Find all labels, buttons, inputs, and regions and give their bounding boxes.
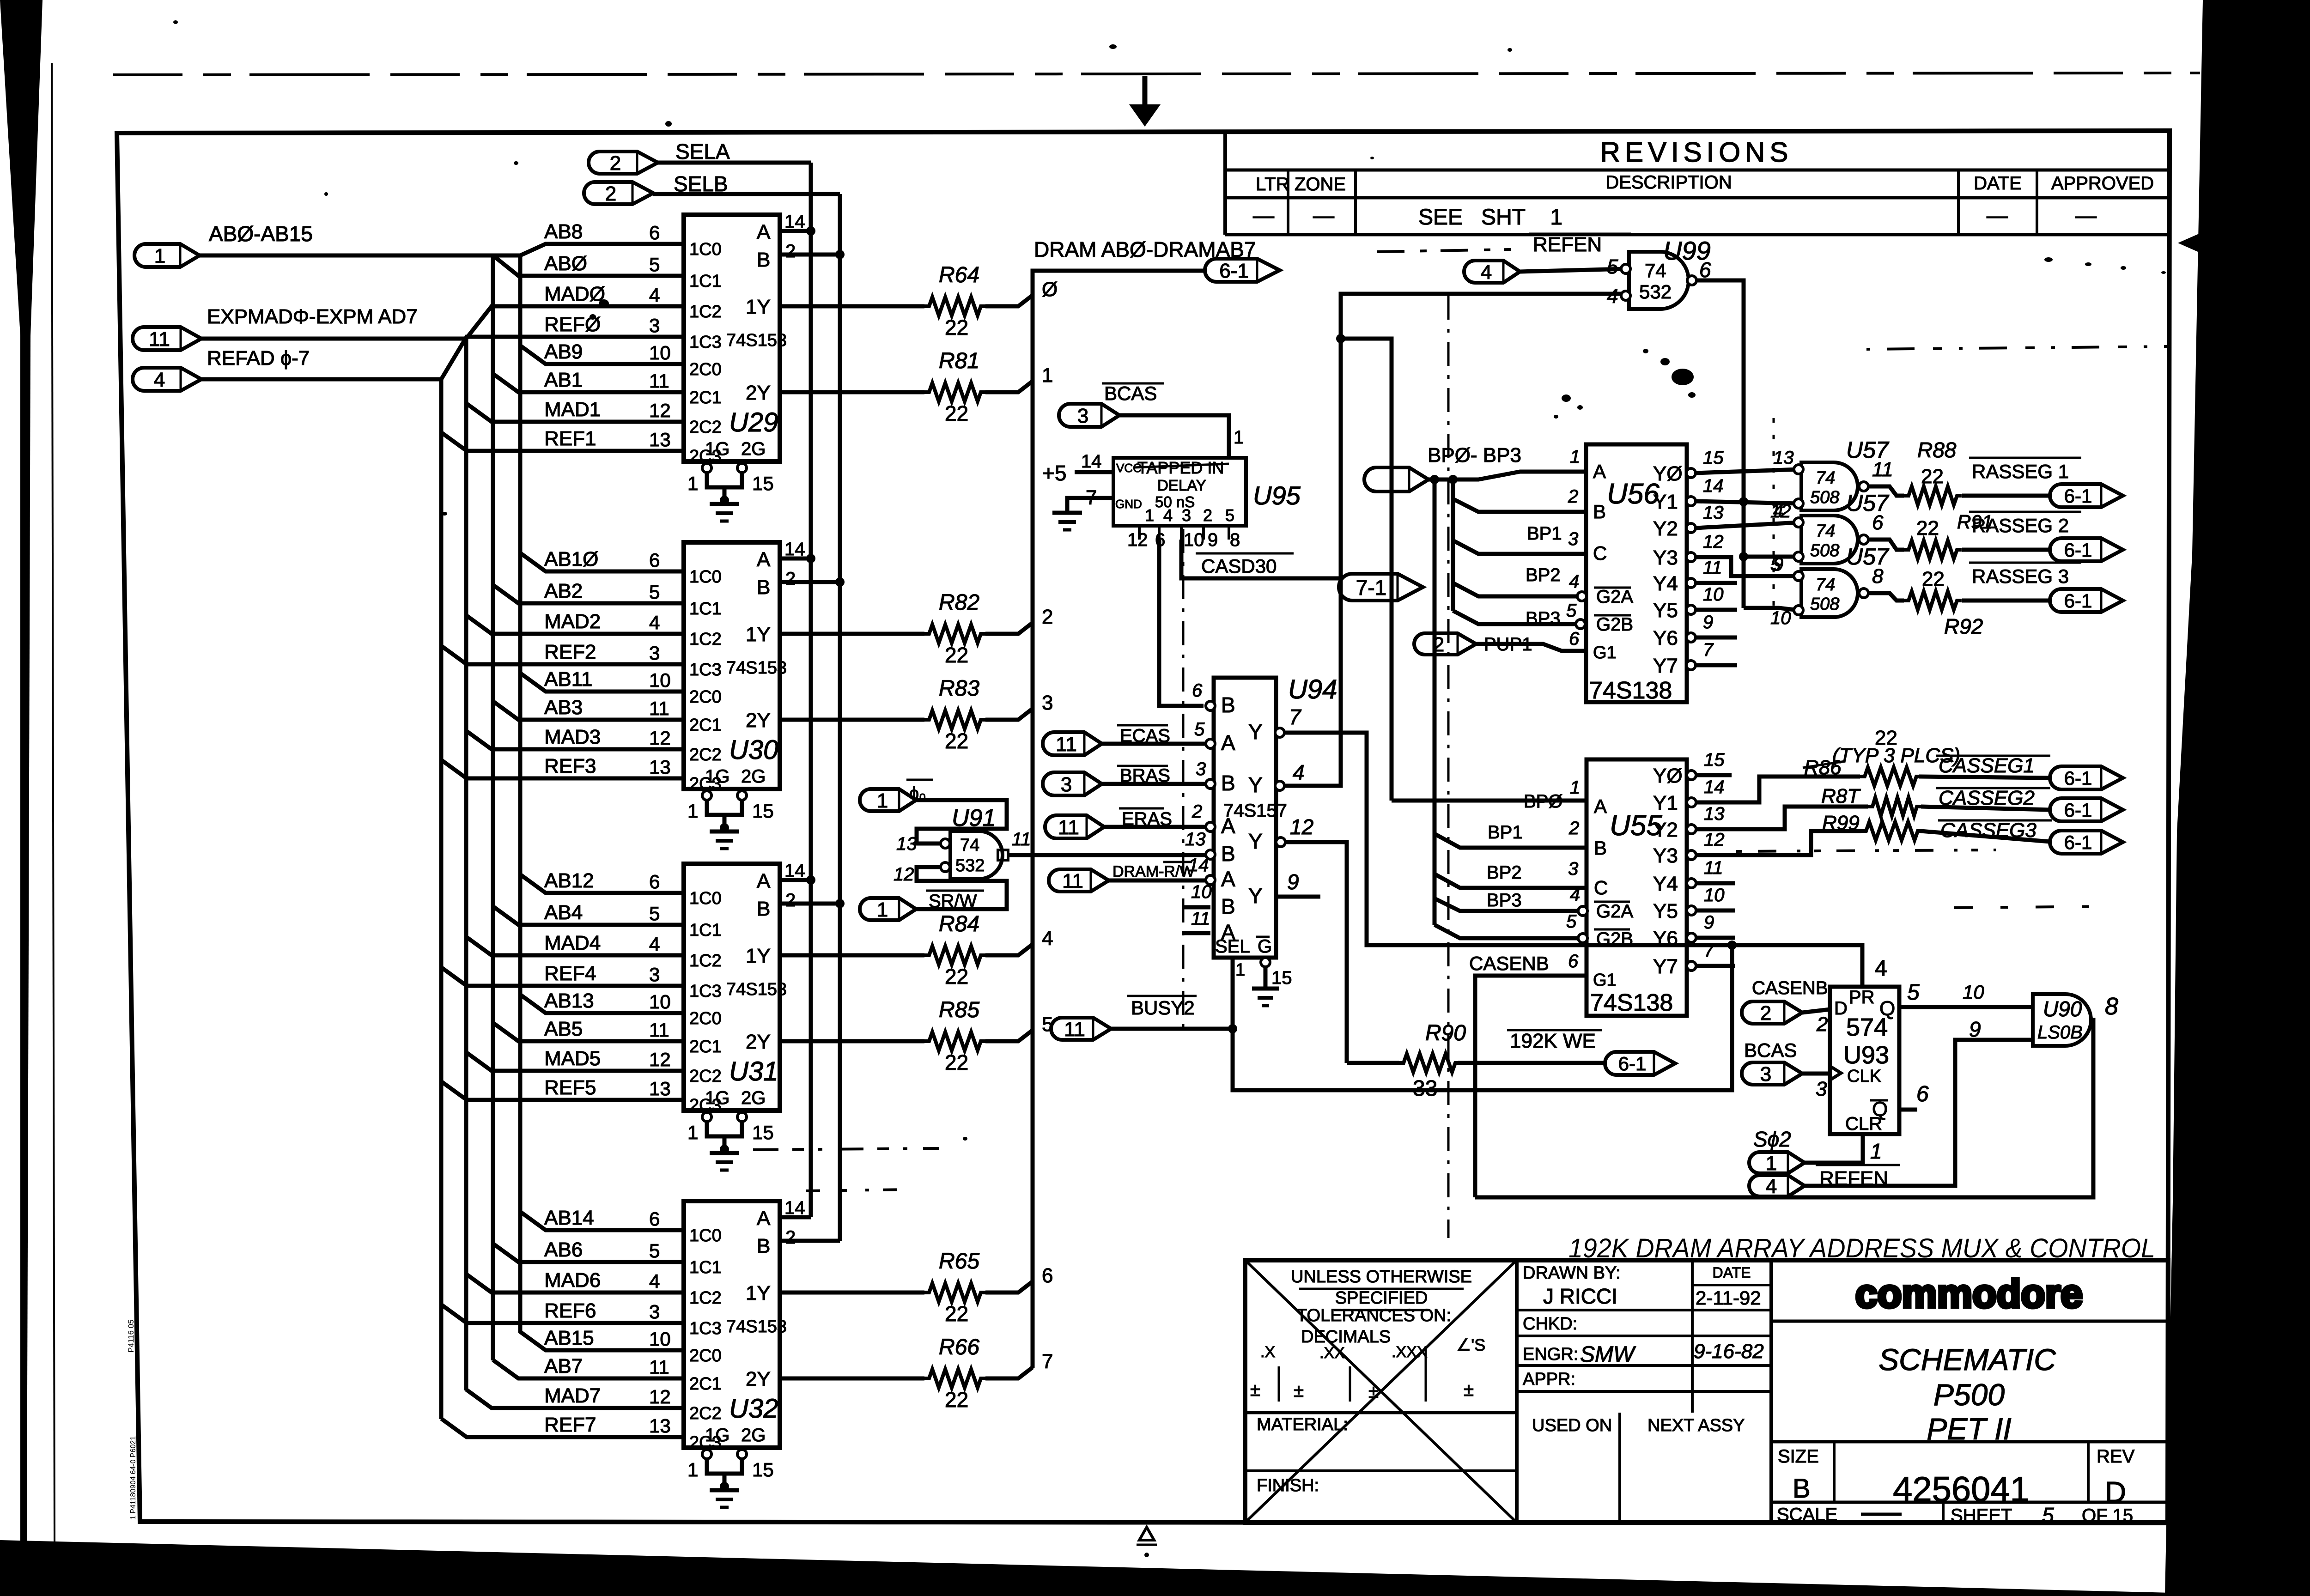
svg-text:7-1: 7-1: [1356, 576, 1386, 600]
svg-text:U95: U95: [1253, 481, 1301, 510]
svg-text:REFAD ɸ-7: REFAD ɸ-7: [207, 347, 310, 370]
wire U94 SEL pin1 / down to PR route: [1233, 945, 1732, 1090]
svg-text:BP2: BP2: [1487, 862, 1522, 883]
svg-text:A: A: [1593, 461, 1606, 482]
svg-text:U94: U94: [1288, 674, 1337, 704]
ground U94: [1252, 989, 1279, 1006]
wire U93 Q to U90 in1: [1899, 980, 2033, 1007]
wire U31 input MAD5 pin 12: [466, 1047, 684, 1071]
svg-text:G2A: G2A: [1596, 901, 1633, 922]
wire U55 Y2 to R87: [1696, 807, 1868, 829]
svg-text:—: —: [1253, 203, 1274, 227]
svg-text:12: 12: [649, 1049, 671, 1070]
svg-text:11: 11: [1058, 816, 1079, 839]
wire U31 input REF4 pin 3: [441, 962, 684, 986]
scan artifacts: [173, 20, 2166, 1141]
svg-text:2C2: 2C2: [689, 418, 722, 437]
svg-text:2C1: 2C1: [689, 1037, 722, 1056]
wire U32 input AB6 pin 5: [493, 1238, 684, 1262]
svg-text:3: 3: [649, 642, 660, 664]
wire SELA trunk: [809, 163, 813, 1217]
resistor R64 22 ohm: [780, 263, 1058, 340]
svg-text:74S138: 74S138: [1590, 989, 1673, 1016]
wire AB bus: [200, 254, 520, 258]
svg-text:6-1: 6-1: [1618, 1053, 1647, 1074]
wire U55 Y1 to R86: [1696, 777, 1860, 802]
wire U29 input AB8 pin 6: [520, 220, 684, 255]
svg-text:14: 14: [784, 539, 805, 559]
svg-text:6: 6: [1192, 680, 1203, 701]
connector 3 BCAS: [1742, 1062, 1802, 1086]
svg-text:A: A: [757, 221, 771, 243]
svg-text:7: 7: [1289, 705, 1301, 729]
svg-text:Y3: Y3: [1653, 844, 1678, 867]
svg-text:3: 3: [649, 1301, 660, 1323]
svg-text:1: 1: [1570, 447, 1580, 467]
svg-text:22: 22: [945, 401, 968, 425]
svg-text:SEL: SEL: [1215, 936, 1250, 957]
wire U30 input AB11 pin 10: [520, 668, 684, 692]
svg-text:G2B: G2B: [1596, 614, 1633, 635]
svg-text:AB11: AB11: [544, 668, 592, 691]
svg-text:AB6: AB6: [544, 1238, 583, 1261]
resistor R84 22 ohm: [780, 912, 1053, 989]
svg-text:REV: REV: [2097, 1446, 2135, 1467]
svg-text:2G: 2G: [741, 766, 766, 787]
svg-text:USED ON: USED ON: [1532, 1416, 1612, 1435]
U55 G2A G2B bubbles: [1578, 906, 1587, 943]
svg-text:6-1: 6-1: [1219, 260, 1249, 282]
svg-text:14: 14: [784, 212, 805, 232]
wire U94 Y pin12 to R90: [1276, 837, 1347, 1063]
svg-text:6: 6: [649, 1208, 660, 1230]
svg-text:D: D: [1834, 998, 1848, 1019]
svg-text:REVISIONS: REVISIONS: [1600, 137, 1793, 168]
svg-text:P500: P500: [1933, 1378, 2005, 1412]
wire bus trunk T4 (AB even): [518, 255, 523, 1333]
svg-text:AB9: AB9: [544, 340, 583, 363]
svg-text:OF 15: OF 15: [2082, 1505, 2133, 1526]
svg-text:15: 15: [1271, 968, 1292, 988]
svg-text:10: 10: [649, 1328, 671, 1350]
svg-text:2G: 2G: [741, 1425, 766, 1445]
svg-text:SMW: SMW: [1580, 1342, 1636, 1367]
wire U29 input REF1 pin 13: [441, 427, 684, 451]
svg-text:C: C: [1593, 542, 1607, 564]
svg-text:BP1: BP1: [1488, 822, 1523, 843]
svg-text:13: 13: [1185, 829, 1206, 850]
U95 bottom pin stubs: [1127, 526, 1240, 550]
svg-text:6: 6: [1916, 1082, 1929, 1106]
svg-text:AB14: AB14: [544, 1207, 594, 1229]
svg-text:4: 4: [1481, 261, 1492, 284]
wire U30 input AB2 pin 5: [493, 580, 684, 603]
svg-text:R82: R82: [939, 590, 979, 615]
svg-text:3: 3: [649, 964, 660, 985]
top center alignment arrow: [1129, 76, 1161, 127]
svg-text:1: 1: [687, 1122, 698, 1143]
scale / sheet: [1777, 1503, 2133, 1527]
svg-text:8: 8: [1872, 565, 1884, 588]
label CASSEG3: [1938, 819, 2052, 842]
wire U30 select A pin 14: [780, 539, 815, 563]
svg-text:10: 10: [1963, 981, 1984, 1003]
svg-text:22: 22: [1916, 517, 1939, 540]
svg-text:B: B: [1221, 771, 1235, 795]
wire S02 to U93 CLR: [1805, 1134, 1882, 1163]
svg-text:REF1: REF1: [544, 427, 596, 450]
svg-text:B: B: [757, 898, 770, 920]
connector 1 phi0: [860, 780, 933, 812]
svg-text:U30: U30: [729, 735, 778, 765]
svg-text:2: 2: [785, 241, 796, 261]
revisions table: [1225, 133, 2169, 235]
wire U30 select B pin 2: [780, 569, 845, 589]
svg-text:A: A: [1221, 867, 1235, 891]
svg-text:Y7: Y7: [1653, 655, 1678, 677]
wire EXPMAD bus: [201, 337, 466, 341]
svg-text:2: 2: [1760, 1002, 1771, 1025]
svg-text:6: 6: [1699, 258, 1711, 282]
svg-text:1: 1: [1235, 960, 1245, 980]
svg-text:R90: R90: [1425, 1021, 1466, 1045]
connector 7-1 CASD30: [1339, 574, 1423, 601]
svg-text:PR: PR: [1849, 987, 1875, 1007]
zone centerline right: [1773, 418, 1775, 617]
svg-text:1C0: 1C0: [689, 889, 722, 908]
svg-text:15: 15: [752, 473, 774, 494]
wire SR/W to U91 pin 12: [916, 867, 1007, 909]
AND gate U57b 74S08: [1770, 490, 1890, 575]
svg-text:2G: 2G: [741, 439, 766, 459]
svg-text:1C3: 1C3: [689, 982, 722, 1001]
wire V1 to U57b in2: [1739, 552, 1799, 561]
svg-text:BP3: BP3: [1487, 890, 1522, 910]
svg-text:1G: 1G: [705, 1425, 729, 1445]
wire U56 Y2 to U57b in1: [1696, 522, 1799, 528]
svg-text:13: 13: [649, 1078, 671, 1099]
vertical registration text: [127, 1319, 137, 1520]
wire BUSY2 to U94 SEL: [1111, 1024, 1237, 1033]
svg-text:Y2: Y2: [1653, 819, 1678, 841]
wire U55 A input: [1392, 799, 1587, 803]
wire bus trunk T1 (REF): [439, 379, 444, 1419]
label CASENB (U93 D): [1752, 978, 1828, 998]
wire U32 select B pin 2: [780, 1227, 840, 1248]
svg-text:ABØ: ABØ: [544, 252, 587, 275]
svg-text:DRAWN BY:: DRAWN BY:: [1523, 1263, 1621, 1283]
wire U31 input AB12 pin 6: [520, 869, 684, 893]
wire SELA: [658, 161, 811, 165]
svg-text:2: 2: [605, 182, 616, 205]
svg-text:MAD2: MAD2: [544, 610, 601, 633]
svg-text:74S153: 74S153: [726, 980, 787, 999]
svg-text:74S153: 74S153: [726, 658, 787, 678]
connector 6-1 DRAM bus: [1205, 259, 1280, 282]
svg-text:2C1: 2C1: [689, 1374, 722, 1394]
wire V1 to U57c in2: [1744, 608, 1799, 610]
svg-text:G1: G1: [1593, 643, 1617, 662]
svg-text:1: 1: [1870, 1139, 1882, 1163]
svg-text:4: 4: [649, 284, 660, 306]
label 192K WE: [1507, 1030, 1602, 1052]
wire U91 output to U94 pin 13: [1008, 853, 1206, 857]
svg-text:10: 10: [1184, 530, 1204, 550]
connector 6-1 RASSEG 3: [2050, 589, 2123, 612]
svg-text:1: 1: [687, 473, 698, 494]
svg-text:5: 5: [649, 254, 660, 275]
svg-text:Y1: Y1: [1653, 491, 1678, 513]
drawing frame border: [117, 131, 2170, 1523]
label BP0-BP3: [1428, 444, 1521, 467]
svg-text:1C2: 1C2: [689, 630, 722, 649]
svg-text:12: 12: [649, 400, 671, 421]
svg-text:G1: G1: [1593, 971, 1617, 990]
wire U90 output loop to CASENB: [1475, 1020, 2093, 1197]
svg-text:5: 5: [1225, 506, 1234, 525]
right edge alignment arrow: [2178, 233, 2201, 253]
svg-text:APPROVED: APPROVED: [2051, 173, 2154, 194]
svg-text:11: 11: [1704, 858, 1723, 878]
svg-text:AB15: AB15: [544, 1327, 594, 1349]
svg-text:R91: R91: [1957, 511, 1993, 533]
svg-text:B: B: [1594, 837, 1607, 859]
resistor R83 22 ohm: [780, 676, 1053, 753]
schematic title text: [1878, 1342, 2056, 1446]
svg-text:1: 1: [1766, 1152, 1777, 1175]
wire U55 Y0 stub: [1696, 773, 1732, 777]
svg-text:74: 74: [1816, 468, 1835, 488]
wire ERAS to U94 pin 2: [1104, 825, 1206, 829]
wire CASENB to U55 G1 and down: [1475, 976, 1587, 1197]
wire U32 input REF6 pin 3: [441, 1299, 684, 1323]
connector BP0-BP3: [1364, 467, 1429, 492]
wire U30 input AB3 pin 11: [493, 696, 684, 720]
svg-text:1 P41180904 64-0 P6021: 1 P41180904 64-0 P6021: [129, 1436, 137, 1520]
label RASSEG 1: [1969, 458, 2081, 482]
wire U30 input REF2 pin 3: [441, 641, 684, 664]
svg-text:1C2: 1C2: [689, 1288, 722, 1308]
svg-text:12: 12: [1703, 532, 1724, 552]
connector 4 REFEN: [1464, 261, 1520, 284]
size / number / rev: [1778, 1446, 2135, 1509]
svg-text:2C2: 2C2: [689, 1404, 722, 1423]
svg-text:12: 12: [894, 864, 914, 885]
svg-text:6: 6: [1568, 951, 1579, 971]
svg-text:12: 12: [649, 727, 671, 749]
IC U32 74S153 body: [684, 1201, 787, 1452]
IC U29 74S153 body: [684, 215, 787, 466]
svg-text:2: 2: [785, 890, 796, 910]
svg-text:1G: 1G: [705, 1088, 729, 1108]
connector 11 DRAM R/W: [1049, 862, 1195, 892]
svg-text:B: B: [757, 1235, 770, 1257]
svg-text:.XXX: .XXX: [1392, 1343, 1427, 1361]
wire U94 Y pin7 to U93 PR route: [1275, 728, 1887, 987]
svg-text:CLK: CLK: [1847, 1067, 1881, 1086]
svg-text:G2A: G2A: [1596, 587, 1633, 607]
svg-text:ZONE: ZONE: [1295, 174, 1346, 194]
svg-text:DATE: DATE: [1713, 1264, 1751, 1281]
svg-text:2Y: 2Y: [746, 382, 771, 404]
svg-text:CHKD:: CHKD:: [1523, 1314, 1577, 1334]
svg-text:A: A: [757, 548, 771, 571]
wire U29 input AB&#216; pin 5: [493, 252, 684, 276]
svg-text:BUSY2: BUSY2: [1131, 997, 1195, 1019]
svg-text:Y6: Y6: [1653, 927, 1678, 950]
svg-text:4: 4: [1607, 285, 1618, 308]
svg-text:CASENB: CASENB: [1752, 978, 1828, 998]
svg-text:6: 6: [1569, 629, 1580, 649]
U32 enable pins 1,15 to ground: [687, 1450, 774, 1507]
svg-text:5: 5: [1566, 601, 1577, 621]
svg-text:1G: 1G: [705, 766, 729, 787]
wire bus trunk T2 (MAD): [464, 339, 468, 1390]
svg-text:14: 14: [1703, 476, 1724, 496]
svg-text:REF6: REF6: [544, 1299, 596, 1322]
svg-text:5: 5: [2042, 1503, 2054, 1527]
svg-text:CASSEG2: CASSEG2: [1939, 787, 2035, 809]
svg-text:1C0: 1C0: [689, 240, 722, 259]
scan black margin top-left wedge: [0, 0, 43, 1543]
svg-text:192K WE: 192K WE: [1510, 1030, 1596, 1052]
svg-text:74: 74: [1816, 522, 1835, 541]
svg-text:11: 11: [649, 698, 669, 719]
svg-text:Y5: Y5: [1653, 599, 1678, 622]
svg-text:U31: U31: [729, 1056, 778, 1086]
svg-text:1Y: 1Y: [746, 1282, 771, 1305]
svg-text:6-1: 6-1: [2064, 539, 2092, 561]
resistor R86 22 ohm: [1860, 767, 2050, 786]
svg-text:R65: R65: [939, 1249, 979, 1274]
svg-text:5: 5: [649, 903, 660, 924]
title block outer box: [1245, 1260, 2168, 1523]
svg-text:4: 4: [154, 369, 165, 391]
svg-text:12: 12: [649, 1386, 671, 1408]
svg-text:BCAS: BCAS: [1104, 382, 1157, 404]
svg-text:ENGR:: ENGR:: [1523, 1345, 1578, 1364]
svg-text:Y1: Y1: [1653, 792, 1678, 814]
svg-text:3: 3: [1816, 1078, 1827, 1100]
svg-text:4: 4: [1042, 927, 1053, 950]
wire U95 GND pin 7: [1067, 486, 1113, 512]
svg-text:1C1: 1C1: [689, 1258, 722, 1277]
svg-text:5: 5: [649, 581, 660, 603]
svg-text:RASSEG 3: RASSEG 3: [1972, 565, 2069, 587]
U57 resistor labels: [1916, 438, 1993, 638]
svg-text:9-16-82: 9-16-82: [1694, 1340, 1764, 1363]
svg-text:15: 15: [752, 800, 774, 822]
wire BCAS to U93 CLK: [1802, 1074, 1830, 1100]
svg-text:508: 508: [1810, 595, 1839, 614]
svg-text:1C0: 1C0: [689, 1226, 722, 1245]
svg-text:2: 2: [610, 152, 621, 175]
U31 enable pins 1,15 to ground: [687, 1112, 774, 1170]
svg-text:Y: Y: [1248, 720, 1263, 744]
svg-text:2: 2: [1042, 606, 1053, 628]
wire CASENB to U93 D: [1802, 1009, 1830, 1036]
AND gate U57c 74S08: [1770, 544, 1890, 628]
svg-text:14: 14: [784, 861, 805, 881]
svg-text:6: 6: [1042, 1264, 1053, 1287]
svg-text:4: 4: [1766, 1175, 1777, 1198]
svg-text:MATERIAL:: MATERIAL:: [1257, 1415, 1348, 1434]
svg-text:6: 6: [649, 222, 660, 243]
resistor R99 22 ohm: [1861, 822, 2050, 842]
svg-text:22: 22: [1921, 465, 1944, 488]
svg-text:R8T: R8T: [1821, 785, 1861, 807]
svg-text:11: 11: [649, 1019, 669, 1041]
connector 4 REFEN bottom: [1749, 1175, 1805, 1198]
wire BCAS to U95 pin 1: [1119, 415, 1244, 458]
svg-text:5: 5: [1194, 719, 1205, 740]
IC U30 74S153 body: [684, 542, 787, 794]
svg-text:AB5: AB5: [544, 1018, 583, 1040]
wire U32 select A pin 14: [780, 1198, 811, 1218]
svg-text:Y4: Y4: [1653, 873, 1678, 895]
U30 enable pins 1,15 to ground: [687, 791, 774, 849]
svg-text:BCAS: BCAS: [1744, 1039, 1797, 1061]
wire bus trunk T3 (AB odd): [491, 255, 495, 1360]
svg-text:REF2: REF2: [544, 641, 596, 663]
svg-text:TOLERANCES ON:: TOLERANCES ON:: [1296, 1306, 1451, 1325]
svg-text:PET II: PET II: [1927, 1412, 2011, 1446]
resistor R82 22 ohm: [780, 590, 1053, 667]
wire U29 input AB9 pin 10: [520, 340, 684, 364]
wire U32 input REF7 pin 13: [441, 1414, 684, 1437]
svg-text:Y4: Y4: [1653, 572, 1678, 595]
svg-text:7: 7: [1042, 1350, 1053, 1373]
svg-text:REF4: REF4: [544, 962, 596, 985]
label RASSEG 2: [1969, 512, 2081, 536]
IC U93 74S74 body: [1830, 987, 1899, 1134]
svg-text:R99: R99: [1822, 812, 1860, 834]
wire BP vertical to U55 A: [1341, 339, 1392, 801]
svg-text:12: 12: [1704, 830, 1725, 850]
wire U29 input REF&#216; pin 3: [441, 313, 684, 379]
wire BP staircase U55: [1435, 479, 1587, 938]
svg-text:A: A: [1594, 795, 1607, 817]
svg-text:CASENB: CASENB: [1469, 953, 1549, 974]
svg-text:4: 4: [1163, 506, 1173, 525]
svg-text:Y3: Y3: [1653, 546, 1678, 569]
svg-text:BP1: BP1: [1527, 523, 1562, 544]
wire U30 input MAD3 pin 12: [466, 726, 684, 749]
svg-text:1C2: 1C2: [689, 951, 722, 971]
svg-text:U91: U91: [952, 805, 996, 831]
resistor R88 22 ohm: [1868, 486, 2050, 505]
svg-text:6: 6: [649, 549, 660, 571]
svg-text:U32: U32: [729, 1394, 778, 1424]
svg-text:2Y: 2Y: [746, 1031, 771, 1053]
svg-text:LTR: LTR: [1256, 174, 1289, 194]
resistor R90 33 ohm: [1347, 1021, 1605, 1101]
svg-text:2G: 2G: [741, 1088, 766, 1108]
svg-text:2C0: 2C0: [689, 1009, 722, 1028]
svg-text:22: 22: [945, 316, 968, 340]
svg-text:SELA: SELA: [675, 140, 730, 164]
svg-text:AB1Ø: AB1Ø: [544, 548, 598, 570]
label RASSEG 3: [1969, 563, 2081, 587]
svg-text:74: 74: [1816, 575, 1835, 595]
connector 2 SELB: [584, 172, 728, 205]
svg-text:6-1: 6-1: [2064, 590, 2092, 612]
title block right section lines: [1771, 1321, 2168, 1523]
svg-text:BP3: BP3: [1526, 608, 1561, 629]
sheet title 192K DRAM ARRAY ADDRESS MUX & CONTROL: [1568, 1233, 2155, 1263]
svg-text:4: 4: [649, 1270, 660, 1292]
svg-text:15: 15: [752, 1122, 774, 1143]
